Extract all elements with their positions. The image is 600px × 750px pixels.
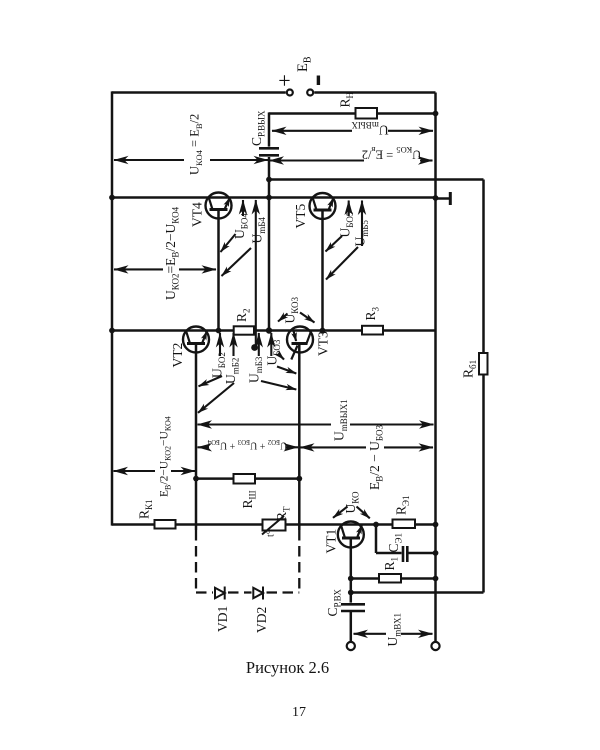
pointer UBO5 to VT5 lead (326, 236, 343, 252)
pointer UKO3 left (278, 314, 288, 322)
svg-text:VT4: VT4 (190, 202, 205, 227)
label Rb1 (461, 360, 479, 378)
label R1 (382, 557, 400, 571)
wire B collector rail y=197 (112, 196, 436, 199)
label UmB5 (353, 220, 371, 247)
arrow UBO5 short up (348, 201, 350, 217)
node VT1 lead / feedback (348, 590, 354, 596)
wire base row y=330 (112, 329, 436, 332)
label UKO3 (283, 296, 301, 323)
node output rail / RE1 (433, 522, 439, 528)
wire VT3 base lead (298, 344, 301, 531)
label UBO5 (338, 211, 356, 237)
label EB2-UKO2-UKO4 vertical (159, 416, 173, 497)
dashed wire VD bottom left (196, 591, 213, 593)
node VT1 lead / R1 (348, 576, 354, 582)
arrow UmB2 up at base row (232, 333, 234, 356)
svg-text:+: + (278, 68, 290, 93)
wire VT1 base lead (350, 538, 353, 603)
battery terminal minus (307, 90, 313, 96)
label VT3 (316, 331, 331, 356)
label UKO4 vertical (188, 114, 204, 175)
pointer UKO right at VT1 (357, 507, 370, 519)
node output rail / R1 (433, 576, 439, 582)
pointer UBO2 to VT2 lead (199, 376, 223, 386)
arrow UBO4 short up (242, 200, 244, 216)
dashed wire right of VD box (298, 530, 300, 593)
resistor R2 (234, 326, 254, 334)
label UmVH1 vertical (385, 613, 403, 647)
resistor R1 (379, 574, 401, 583)
label VT5 (293, 204, 308, 229)
node UmB4 arrow tail dot (251, 344, 258, 351)
resistor R3 (362, 326, 383, 335)
arrow EB2-UKO2-UKO4 y=471 (114, 470, 156, 472)
transistor VT1 (338, 522, 364, 548)
label EB2-UBO3 vertical (367, 425, 385, 490)
node VT4 lead / base row (216, 328, 222, 334)
arrow UKO2 y=269 (114, 268, 163, 270)
arrow UBO3 up at base row (270, 333, 272, 356)
terminal bar right of wire B (449, 192, 452, 205)
label UKO2 vertical (163, 206, 181, 300)
svg-text:t°: t° (266, 530, 277, 537)
dashed wire left of VD box (195, 530, 197, 593)
label UBO2 (210, 352, 228, 378)
dashed wire VD bottom right (267, 591, 300, 593)
capacitor CPvyh plates (259, 147, 279, 150)
label VD2 (254, 607, 269, 633)
node output rail / CE1 (433, 550, 439, 556)
label RT (274, 506, 292, 521)
pointer small near VT3 (278, 354, 284, 360)
label CE1 (386, 533, 404, 552)
label R3 (363, 306, 381, 320)
svg-text:VD1: VD1 (215, 606, 230, 632)
arrow UKO4 y=160 (114, 159, 184, 161)
resistor RH (356, 108, 378, 119)
wire CE1 branch right (408, 552, 436, 555)
label UmB3 (247, 356, 265, 383)
svg-text:VT3: VT3 (316, 331, 331, 356)
output terminal right (431, 642, 439, 650)
node CE1 top (373, 522, 379, 528)
arrow UBO234 y=447.3 (198, 446, 210, 448)
wire VT1 base lead to input terminal (350, 612, 353, 642)
node mid rail / wire B (266, 195, 272, 201)
label UBO4 (232, 213, 250, 239)
pointer UmB2 to VT2 lead (198, 383, 234, 413)
node VT5 lead / base row (320, 328, 326, 334)
label VD1 (215, 606, 230, 632)
wire A feedback top y=179 (269, 178, 484, 181)
wire feedback bottom y=592.5 (351, 591, 484, 594)
node mid rail / base row (266, 327, 272, 333)
label UBO3 (265, 339, 283, 365)
node Rsh right (296, 476, 302, 482)
wire top battery left segment (112, 91, 286, 94)
arrow UmB3 up at base row (258, 333, 260, 356)
wire mid rail x=269 lower part (268, 157, 271, 331)
pointer UmB4 to VT4 lead (222, 248, 252, 276)
arrow UmB5 long up (361, 201, 363, 247)
wire VT2 base lead (195, 344, 198, 531)
label RH (338, 91, 356, 107)
pointer UKO3 right (300, 313, 315, 323)
wire VT5 base lead (321, 210, 324, 331)
label UBO2+UBO3+UBO4 rot180 (207, 438, 287, 451)
resistor RE1 (393, 520, 416, 529)
pointer UKO left at VT1 (333, 507, 348, 518)
input terminal left (347, 642, 355, 650)
node Rsh left (193, 476, 199, 482)
wire RK1/RT row y=524.5 (112, 523, 436, 526)
arrow UKO5 y=160 (270, 159, 365, 161)
label RK1 (137, 499, 155, 519)
wire output rail x=435 (434, 93, 437, 643)
wire far right rail x=483 (482, 180, 485, 593)
battery terminal plus (287, 90, 293, 96)
label EB battery (295, 56, 314, 72)
label CPvh (325, 589, 343, 617)
transistor VT5 (310, 193, 336, 219)
label UKO at VT1 (343, 491, 361, 514)
wire RH row y=113 (269, 112, 436, 115)
svg-text:VT5: VT5 (293, 204, 308, 229)
wire CE1 branch vertical (375, 525, 378, 554)
node output rail / RH row (433, 111, 439, 117)
label t of RT (266, 530, 277, 537)
wire stub to terminal bar (436, 197, 450, 200)
node output rail / wire B (433, 195, 439, 201)
label UmVYH rot180 (351, 120, 389, 138)
label VT4 (190, 202, 205, 227)
svg-text:VT2: VT2 (170, 343, 185, 368)
capacitor CE1 plates (402, 546, 405, 562)
transistor VT2 (183, 327, 209, 353)
thermistor RT diagonal stroke (262, 516, 284, 535)
label CPvyh (249, 110, 267, 146)
arrow UBO2 up at base row (219, 333, 221, 356)
label VT2 (170, 343, 185, 368)
wire CE1 branch horizontal (376, 552, 402, 555)
arrow EB2-UBO3 y=447.4 (300, 446, 366, 448)
pointer UmB3 to VT3 lead (261, 381, 296, 390)
resistor RT thermistor (263, 520, 286, 531)
svg-text:VT1: VT1 (324, 529, 339, 554)
svg-text:UКО5 = Eв/2: UКО5 = Eв/2 (362, 145, 422, 161)
resistor Rb1 vertical (479, 353, 488, 375)
label RE1 (394, 496, 412, 515)
diode VD2 (253, 587, 263, 600)
wire R1 row y=578.5 (351, 577, 436, 580)
arrow UmB4 long up (255, 200, 257, 347)
resistor RK1 (155, 520, 176, 529)
label UKO5 rot180 (362, 145, 422, 161)
node left rail / base row (109, 328, 115, 334)
node left rail / wire B (109, 195, 115, 201)
arrow UmVYH1 y=424.5 (198, 423, 332, 425)
label UmB4 (250, 217, 268, 244)
wire Rsh row y=478.6 (196, 477, 299, 480)
label UmB2 (223, 358, 241, 384)
diode VD1 (215, 587, 225, 600)
transistor VT3 pnp (287, 327, 313, 360)
wire VT4 base lead (217, 210, 220, 331)
label minus bar (317, 76, 320, 86)
resistor Rsh (234, 474, 256, 484)
label Rsh (240, 490, 258, 508)
capacitor CPvh plates (341, 603, 365, 606)
svg-text:17: 17 (292, 705, 306, 720)
dashed wire VD bottom middle (228, 591, 252, 593)
svg-text:VD2: VD2 (254, 607, 269, 633)
wire mid rail x=269 (268, 112, 271, 146)
label R2 (234, 308, 252, 322)
label UmVYH1 vertical (332, 399, 350, 441)
node mid rail / wire A (266, 177, 272, 183)
svg-text:Рисунок 2.6: Рисунок 2.6 (246, 658, 329, 677)
pointer UBO3 to VT3 lead (277, 367, 296, 374)
transistor VT4 (206, 193, 232, 219)
wire left rail (111, 91, 114, 525)
arrow UmVH1 y=633.8 (354, 633, 387, 635)
label VT1 (324, 529, 339, 554)
pointer UBO4 to VT4 lead (221, 234, 236, 252)
pointer UmB5 to VT5 lead (326, 247, 358, 280)
arrow UmVYH y=130 (272, 130, 352, 132)
wire top battery right segment (314, 91, 435, 94)
